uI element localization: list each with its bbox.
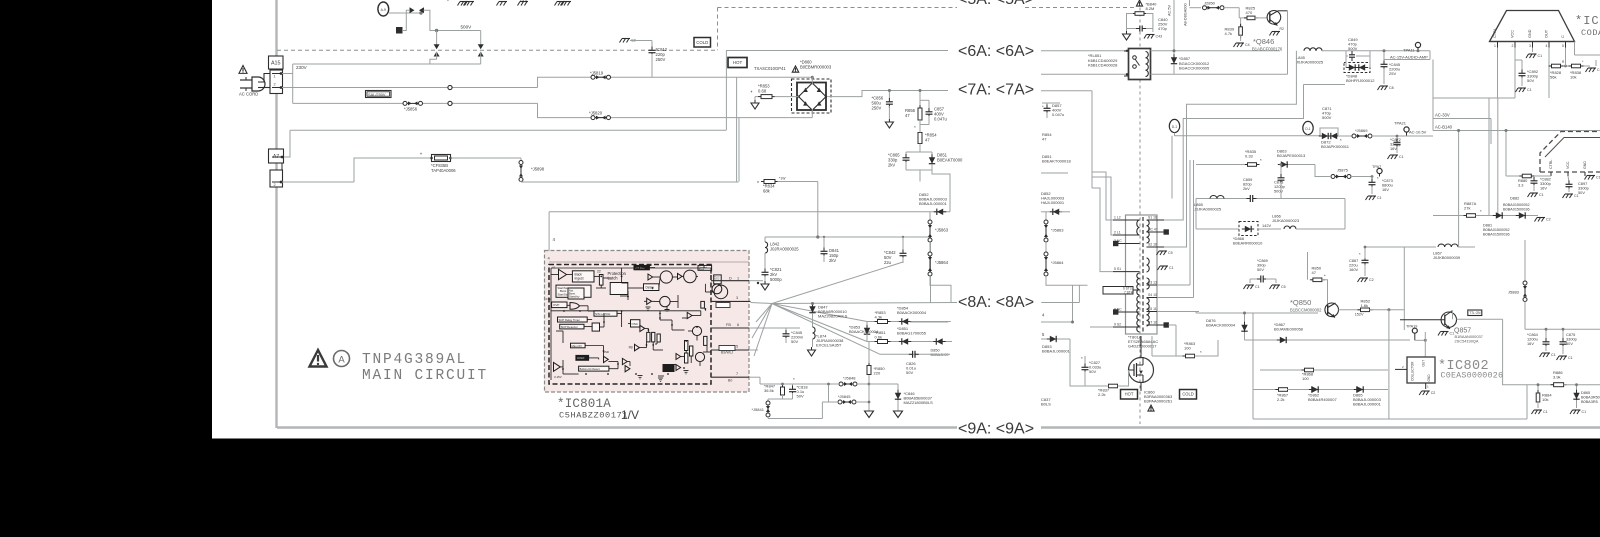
inductor L845 (1304, 48, 1310, 51)
wire x950 down to D852 (932, 170, 950, 212)
diode D857b (1173, 51, 1175, 56)
jumper J5845 (822, 401, 837, 403)
diode D865b (1576, 385, 1578, 392)
rail y173 right page (1041, 172, 1068, 174)
svg-text:3: 3 (1529, 44, 1531, 48)
ground (top cut) 3 (520, 1, 528, 3)
IC801A internal logic (546, 265, 728, 381)
svg-text:2kV: 2kV (888, 163, 895, 168)
svg-text:C4: C4 (1245, 43, 1250, 47)
resistor R847 (782, 384, 784, 387)
svg-text:G4DZ20000017: G4DZ20000017 (1128, 343, 1157, 348)
resistor R839 (1240, 18, 1242, 27)
svg-text:50V: 50V (1578, 190, 1585, 195)
capacitor C867 (1362, 259, 1369, 261)
svg-text:27k: 27k (1464, 206, 1470, 211)
ground hatch T801 b (1160, 265, 1168, 267)
svg-text:<7A: <7A>: <7A: <7A> (958, 82, 1034, 99)
svg-text:*: * (793, 377, 795, 382)
svg-text:S3 13: S3 13 (1148, 281, 1157, 285)
jumper J5869 (1352, 134, 1356, 138)
jumper J5848 (760, 383, 838, 385)
svg-text:COLLECTOR: COLLECTOR (1411, 361, 1415, 381)
diode D866 dashed (1196, 228, 1239, 230)
svg-text:2 L1: 2 L1 (1114, 231, 1121, 235)
ground hatch C845c (1380, 85, 1388, 87)
jumper J5819 (591, 75, 595, 79)
svg-text:*Q850: *Q850 (1290, 298, 1311, 307)
svg-text:A: A (338, 355, 345, 366)
resistor R834 (764, 180, 775, 184)
svg-text:16V: 16V (1390, 146, 1397, 151)
svg-text:6: 6 (737, 323, 739, 327)
svg-text:*1W: *1W (779, 177, 786, 181)
svg-text:2: 2 (274, 83, 276, 87)
IC801 pin 5 BS/WLJ (711, 349, 749, 351)
svg-text:*: * (914, 125, 916, 130)
IC802 box (1407, 357, 1435, 383)
svg-text:Bottom-On Detect: Bottom-On Detect (580, 368, 600, 371)
svg-text:16V: 16V (1540, 186, 1547, 191)
wire right drop x1388 (1388, 310, 1390, 419)
svg-text:B0: B0 (728, 379, 732, 383)
svg-text:<8A: <8A>: <8A: <8A> (958, 294, 1034, 311)
ground arrow L874 (811, 347, 813, 350)
svg-text:2kV: 2kV (829, 258, 836, 263)
svg-text:TAP40A0006: TAP40A0006 (431, 168, 456, 173)
wire x930 drop (930, 237, 932, 303)
svg-text:3.9k: 3.9k (1553, 375, 1561, 380)
svg-text:B0EAKT0000: B0EAKT0000 (937, 158, 963, 163)
transistor Q857 (1441, 312, 1456, 327)
svg-text:Stand-by: Stand-by (569, 295, 580, 299)
capacitor D841 (823, 237, 825, 249)
resistor R856 (919, 91, 921, 101)
IC801 pin 3 D-GND (711, 300, 751, 302)
HOT/COLD boundary dashed vertical right page (1139, 8, 1141, 425)
capacitor C864 (1545, 329, 1547, 340)
svg-text:230V: 230V (296, 65, 308, 70)
diode D865 (1357, 386, 1363, 392)
svg-text:C1: C1 (1450, 332, 1455, 336)
svg-text:B0LS: B0LS (1041, 402, 1051, 407)
svg-text:AC-33V: AC-33V (1435, 113, 1450, 118)
svg-text:152V: 152V (1355, 313, 1364, 317)
capacitor C842 (902, 237, 904, 251)
svg-text:22u: 22u (884, 260, 892, 265)
transformer left feeders (1091, 91, 1093, 188)
bridge top stub (811, 77, 813, 84)
ground hatch R884 (1534, 409, 1542, 411)
diode D881b (1519, 212, 1525, 218)
svg-text:0.33: 0.33 (1245, 154, 1254, 159)
svg-text:1.6k: 1.6k (1361, 303, 1369, 308)
svg-text:C8: C8 (1389, 86, 1394, 90)
resistor R837 (1109, 384, 1118, 388)
svg-text:S/S LATCH: S/S LATCH (595, 312, 610, 316)
ground (top cut) 1 (466, 1, 474, 3)
svg-text:3: 3 (736, 296, 738, 300)
diode D852 (937, 209, 943, 215)
relay RL851 (1129, 49, 1151, 80)
wire 8A rail right page (1041, 302, 1079, 304)
svg-text:HAJL000001: HAJL000001 (1041, 200, 1065, 205)
svg-text:220: 220 (874, 371, 881, 376)
svg-text:D881: D881 (1483, 224, 1492, 228)
svg-text:S1 16: S1 16 (1148, 216, 1157, 220)
svg-text:*J5869: *J5869 (1355, 128, 1368, 133)
wire from square with arrows crossing (402, 10, 409, 30)
svg-text:C1: C1 (1582, 410, 1587, 414)
warning triangle title (310, 350, 327, 367)
svg-text:UVLO: UVLO (577, 356, 584, 360)
svg-text:100: 100 (1184, 346, 1191, 351)
inductor L866 (1284, 226, 1290, 229)
svg-text:*: * (1081, 356, 1083, 361)
svg-text:10k: 10k (1542, 397, 1548, 402)
ground (top cut) 0 (460, 1, 468, 3)
svg-text:VCC: VCC (1566, 161, 1570, 169)
svg-text:1: 1 (274, 75, 276, 79)
svg-text:MAZ20820A0LS: MAZ20820A0LS (818, 314, 848, 319)
svg-text:5: 5 (736, 345, 738, 349)
out row resistors (1549, 65, 1590, 67)
svg-text:*J5845: *J5845 (838, 394, 851, 399)
svg-text:B0BAJL00: B0BAJL00 (931, 353, 949, 357)
ground hatch C864 (1542, 352, 1550, 354)
rail R880 row (1506, 175, 1551, 177)
circled D-1 (1303, 121, 1313, 134)
resistor R851 (878, 340, 888, 344)
transformer right feeders (1171, 136, 1173, 199)
svg-text:COLD: COLD (1182, 392, 1193, 397)
svg-text:<9A: <9A>: <9A: <9A> (958, 421, 1034, 438)
svg-text:*J5863: *J5863 (1051, 228, 1064, 233)
jumper J5863 (929, 212, 931, 220)
wire A7 pin2 row (282, 181, 354, 183)
wire 7A rail right page (1041, 90, 1092, 92)
bridge rectifier inner box (797, 83, 826, 111)
test point TPA11 (1415, 42, 1420, 47)
svg-text:J0JKB0000039: J0JKB0000039 (1433, 255, 1461, 260)
resistor R880 (1522, 174, 1531, 178)
svg-text:B0BAJL000001: B0BAJL000001 (1353, 402, 1382, 407)
ground arrow R850 (865, 411, 874, 418)
svg-text:"': "' (447, 0, 449, 4)
svg-text:47: 47 (1312, 270, 1317, 275)
ground C2x (622, 38, 630, 40)
resistor R838 (1572, 64, 1581, 68)
svg-text:CTRL: CTRL (1493, 28, 1497, 38)
label COLD box top (694, 38, 711, 48)
wire drop to boundary arrows (436, 31, 438, 45)
diode D863 (1281, 161, 1287, 167)
svg-text:2SC54190QA: 2SC54190QA (1455, 339, 1479, 344)
svg-text:SCP Detector: SCP Detector (561, 325, 578, 329)
svg-text:2: 2 (274, 183, 276, 187)
svg-text:47: 47 (905, 113, 910, 118)
svg-text:3.3: 3.3 (1518, 183, 1523, 188)
svg-text:B0AACK000004: B0AACK000004 (897, 310, 927, 315)
svg-text:8.2M: 8.2M (1146, 6, 1155, 11)
svg-text:MAIN CIRCUIT: MAIN CIRCUIT (362, 368, 488, 384)
svg-text:HOT: HOT (1125, 392, 1134, 397)
svg-text:*J5841: *J5841 (752, 407, 765, 412)
svg-text:0.5V: 0.5V (546, 297, 552, 301)
svg-text:0.047u: 0.047u (1052, 112, 1064, 117)
svg-text:GND: GND (1528, 29, 1532, 38)
label COLD box 2 (1180, 390, 1197, 400)
page frame heavy vertical border (275, 0, 277, 428)
svg-text:0.047u: 0.047u (934, 117, 947, 122)
svg-text:B0JAPE000013: B0JAPE000013 (1277, 153, 1306, 158)
svg-text:HOT: HOT (733, 60, 743, 65)
label HOT box 2 (1121, 390, 1138, 400)
svg-text:J5883: J5883 (1508, 290, 1520, 295)
svg-text:B1BCCM000002: B1BCCM000002 (1290, 308, 1322, 313)
ground hatch C897 (1565, 193, 1573, 195)
jumper J5898 (520, 158, 522, 161)
svg-text:OUT: OUT (1422, 360, 1426, 367)
transformer T801A (1103, 215, 1168, 334)
svg-text:FB: FB (726, 323, 731, 327)
capacitor C845b (785, 328, 787, 332)
svg-text:J0JKA0000023: J0JKA0000023 (1272, 218, 1300, 223)
svg-text:C1: C1 (1399, 155, 1404, 159)
capacitor C818 (792, 384, 794, 388)
ground IC802 (1422, 390, 1430, 392)
svg-text:1: 1 (737, 277, 739, 281)
label HOT box (728, 58, 747, 68)
ground hatch C892 (1518, 87, 1526, 89)
connector A15 pins (270, 70, 283, 94)
jumper J5883 (1524, 240, 1526, 281)
svg-text:142V: 142V (1262, 223, 1271, 228)
loop bottom wires (768, 398, 793, 400)
svg-text:D882: D882 (1510, 196, 1519, 201)
IC801 pin D 1 (711, 280, 749, 282)
IC801 outer box top (549, 211, 950, 213)
capacitor C873c (1371, 177, 1373, 181)
capacitor C826 (912, 351, 914, 358)
bridge rectifier diamond (799, 83, 826, 110)
capacitor C897 (1568, 176, 1569, 182)
ground hatch Q846 (1272, 31, 1280, 33)
svg-text:*: * (1340, 138, 1342, 143)
svg-text:B0JAPK000011: B0JAPK000011 (1321, 144, 1350, 149)
svg-text:*: * (1260, 158, 1262, 163)
resistor R825 (1238, 8, 1240, 18)
svg-text:250V: 250V (872, 106, 882, 111)
inductor L842 (764, 237, 766, 242)
ground hatch R839 (1236, 42, 1244, 44)
svg-text:B0JAME000058: B0JAME000058 (1274, 327, 1304, 332)
ground hatch D881 (1537, 217, 1545, 219)
svg-text:*J5863: *J5863 (935, 228, 949, 233)
svg-text:C5: C5 (1281, 285, 1286, 289)
wire stub y13 (389, 12, 421, 14)
svg-text:D-1: D-1 (1305, 127, 1310, 131)
wire VCC down (1514, 48, 1516, 99)
svg-text:500V: 500V (1348, 46, 1358, 51)
wire OUT right (1575, 54, 1600, 56)
svg-text:C1: C1 (1377, 196, 1382, 200)
svg-text:B0BAJL000001: B0BAJL000001 (919, 201, 948, 206)
row C wire (880, 353, 950, 355)
svg-text:C1: C1 (1568, 356, 1573, 360)
svg-text:C1: C1 (1169, 266, 1174, 270)
svg-text:GND: GND (1583, 161, 1587, 169)
svg-text:A-9: A-9 (381, 8, 386, 12)
wire Q850 feed (1195, 312, 1197, 314)
inductor L874 (813, 327, 816, 333)
junction on 500V wire (435, 29, 438, 32)
jumper J5864 (929, 242, 931, 252)
svg-text:7: 7 (736, 372, 738, 376)
vertical bus x726 (725, 51, 727, 131)
svg-text:500V: 500V (461, 24, 473, 29)
svg-text:5 S1: 5 S1 (1114, 267, 1121, 271)
svg-text:TNP4G389AL: TNP4G389AL (362, 352, 467, 368)
diode D881a (1496, 212, 1502, 218)
svg-text:B0AACK000004: B0AACK000004 (1206, 323, 1236, 328)
svg-text:S5 11: S5 11 (1148, 307, 1157, 311)
wire A8 label (1189, 0, 1191, 6)
svg-text:100: 100 (1302, 376, 1309, 381)
IC audio dashed copy (1540, 132, 1600, 173)
row B wire (867, 341, 952, 343)
svg-text:BGACCK000005: BGACCK000005 (1179, 66, 1210, 71)
jumper J5875 row (1315, 165, 1330, 177)
ground hatch C840 (1152, 29, 1154, 33)
capacitor C845c (1383, 51, 1385, 62)
svg-text:Max-ON: Max-ON (572, 344, 582, 348)
svg-text:<5A: <5A>: <5A: <5A> (958, 0, 1034, 8)
svg-text:50V: 50V (797, 394, 804, 399)
warning triangle B840 (1136, 0, 1142, 6)
svg-text:C1: C1 (1255, 285, 1260, 289)
loop vertical x828 (828, 384, 830, 402)
connector A7 pins (270, 170, 283, 187)
svg-text:50V: 50V (1527, 78, 1534, 83)
svg-text:50V: 50V (1089, 369, 1096, 374)
svg-text:C5HABZZ00171: C5HABZZ00171 (559, 411, 628, 421)
IC801 pin 7 B0 (711, 376, 749, 378)
svg-text:OUT: OUT (1545, 29, 1549, 38)
bus x1433 (1432, 60, 1434, 131)
svg-text:500V: 500V (1322, 115, 1332, 120)
resistor R850b (1307, 252, 1309, 280)
label SAL/250V (366, 91, 392, 98)
svg-text:A1: A1 (552, 266, 556, 270)
wire 7A rail left page (828, 91, 949, 97)
svg-text:BS/WLJ: BS/WLJ (721, 351, 734, 355)
wire Q857 net (1452, 311, 1454, 320)
svg-text:R2: R2 (1280, 27, 1284, 31)
jumper J2850 row (1190, 7, 1202, 9)
svg-text:4: 4 (1546, 44, 1548, 48)
svg-text:C: C (1561, 35, 1565, 38)
test point TPA21 (1404, 127, 1409, 132)
svg-text:36.5k: 36.5k (764, 388, 774, 393)
svg-text:1/V: 1/V (621, 408, 639, 422)
svg-text:4.7k: 4.7k (1225, 31, 1233, 36)
jumper J5863c (1045, 212, 1047, 220)
svg-text:50V: 50V (906, 370, 913, 375)
svg-text:B0BA01500036: B0BA01500036 (1503, 207, 1530, 211)
svg-text:C1: C1 (1539, 193, 1544, 197)
svg-text:Ingest: Ingest (575, 277, 584, 281)
capacitor C821 (762, 271, 769, 273)
wire chain bottom (930, 276, 951, 303)
wire AC.5V (1173, 0, 1175, 74)
svg-text:EXCELSA35T: EXCELSA35T (816, 343, 842, 348)
svg-text:B0EARR000010: B0EARR000010 (1233, 241, 1263, 246)
svg-text:2.2k: 2.2k (1277, 397, 1285, 402)
svg-text:A15: A15 (271, 60, 281, 66)
ground hatch C873c (1368, 195, 1376, 197)
diode D848 dashed (1344, 63, 1370, 73)
svg-text:16V: 16V (1527, 341, 1534, 346)
ground (top cut) 4 (557, 1, 565, 3)
svg-text:*IC8: *IC8 (1575, 14, 1600, 28)
Q857 labels (1468, 310, 1482, 316)
svg-text:OVP: OVP (553, 303, 559, 307)
junction J5856 row (448, 101, 452, 105)
fuse CF835B (432, 155, 451, 162)
svg-text:47: 47 (925, 138, 930, 143)
svg-text:0.15V: 0.15V (554, 375, 561, 379)
svg-text:*Q846: *Q846 (1253, 37, 1274, 46)
svg-text:B0BA01500052: B0BA01500052 (1483, 228, 1510, 232)
230V wire (293, 63, 481, 65)
svg-text:C1: C1 (1574, 194, 1579, 198)
HOT/COLD boundary dashed vertical riser (717, 8, 719, 51)
svg-text:*J5856: *J5856 (404, 107, 418, 112)
page frame heavy bottom border left of 9A (277, 426, 957, 428)
jumper J5841 (766, 401, 770, 405)
diode D850 (936, 338, 942, 344)
ground hatch D865b (1573, 409, 1581, 411)
svg-text:2.2k: 2.2k (1098, 392, 1106, 397)
svg-text:4.3k: 4.3k (875, 315, 883, 320)
misc wire right edge (1595, 60, 1597, 66)
AC plug symbol (252, 77, 265, 91)
svg-text:TPA19: TPA19 (1406, 325, 1417, 329)
resistor R867 (1253, 389, 1277, 391)
svg-text:MAZ21800B0LS: MAZ21800B0LS (904, 400, 934, 405)
wire 6A rail left page (726, 50, 948, 52)
bridge bottom stub (811, 109, 813, 118)
svg-text:TPA11: TPA11 (1403, 48, 1415, 53)
capacitor C856 (888, 91, 890, 100)
vertical bus x738.5 (736, 77, 738, 181)
HOT/COLD boundary dashed line top (718, 7, 958, 9)
svg-text:C2: C2 (1431, 391, 1436, 395)
svg-text:*J5864: *J5864 (935, 260, 949, 265)
jumper J5820 (591, 116, 595, 120)
svg-text:C1: C1 (1527, 88, 1532, 92)
row D872 (1175, 135, 1321, 137)
svg-text:B0EAKT000018: B0EAKT000018 (1042, 159, 1071, 164)
svg-text:TXASC010GP41: TXASC010GP41 (754, 66, 786, 71)
svg-text:50V: 50V (1566, 341, 1573, 346)
svg-text:B0BA4R400007: B0BA4R400007 (1308, 397, 1337, 402)
ground arrow R853 (755, 96, 758, 98)
resistor B840 (1135, 12, 1144, 16)
wire riser to HOT box area bottom (538, 103, 813, 117)
resistor R828 (1552, 64, 1561, 68)
